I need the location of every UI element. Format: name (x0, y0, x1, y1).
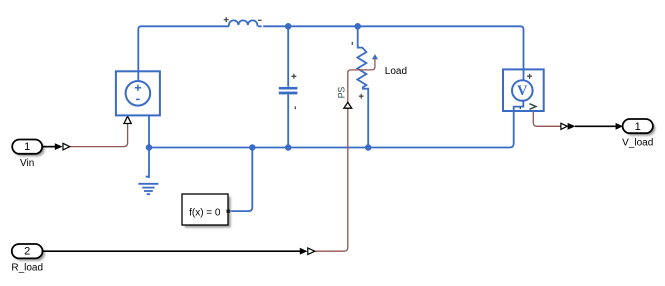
PS wire: R_load converter up to load PS port (315, 101, 348, 251)
junction node B (top rail at load) (354, 23, 361, 30)
signal wire from port R_load (43, 248, 315, 255)
capacitor minus label (rotated tick) (294, 106, 296, 109)
wire: top rail left segment, source positive terminal to inductor (138, 26, 229, 81)
variable resistor R1 Load (zigzag) (357, 26, 368, 147)
svg-text:R_load: R_load (11, 263, 43, 274)
svg-text:1: 1 (24, 141, 30, 153)
svg-text:Load: Load (385, 66, 407, 77)
svg-text:V_load: V_load (622, 137, 653, 148)
capacitor plus label (291, 74, 296, 79)
resistor plus label (359, 94, 364, 99)
svg-text:PS: PS (337, 87, 347, 99)
output port 1 V_load (623, 119, 656, 136)
input port 2 R_load (12, 244, 45, 261)
capacitor C1 (279, 26, 298, 147)
svg-text:Vin: Vin (20, 158, 34, 169)
wire: top rail right segment, inductor to sensor positive terminal (258, 26, 524, 80)
controlled voltage source U1 (116, 71, 160, 115)
svg-text:1: 1 (635, 121, 641, 133)
PS wire: load PS port to variable-resistor arrow (348, 59, 375, 101)
PS input port triangle of load (344, 102, 352, 108)
junction node A (inductor-capacitor, top rail) (285, 23, 292, 30)
resistor minus label (rotated tick) (351, 42, 353, 45)
solver configuration block f(x) = 0 (182, 194, 231, 228)
voltage sensor U2 (503, 69, 544, 111)
PS wire: Vin converter to source control port (70, 123, 128, 147)
wire: source negative terminal down to bottom rail (148, 115, 150, 147)
inductor L1 (three-arc coil) (229, 20, 258, 26)
wire: bottom rail to sensor negative terminal (149, 111, 514, 148)
junction node C (source-ground, bottom rail) (146, 144, 153, 151)
junction node F (load, bottom rail) (365, 144, 372, 151)
svg-text:f(x) = 0: f(x) = 0 (189, 207, 221, 218)
signal wire from port Vin (42, 143, 70, 150)
inductor plus label (224, 17, 229, 22)
variable resistor arrowhead (PS control port marker) (372, 54, 378, 59)
inductor minus label (258, 19, 262, 21)
wire: solver block to bottom rail (230, 148, 252, 212)
svg-text:2: 2 (24, 246, 30, 258)
port gap at inductor negative pin (262, 25, 264, 28)
junction node D (solver connection, bottom rail) (249, 144, 256, 151)
signal wire from sensor to output port (561, 123, 623, 130)
PS input port triangle of source (124, 116, 131, 123)
ground G1 (138, 148, 158, 195)
svg-text:V: V (517, 83, 528, 99)
input port 1 Vin (12, 140, 44, 157)
junction node E (capacitor, bottom rail) (285, 144, 292, 151)
PS wire: sensor output down and right (533, 111, 561, 126)
